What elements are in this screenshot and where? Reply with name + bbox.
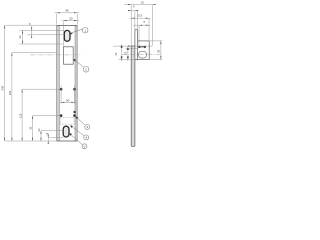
- side view tab: [135, 41, 149, 60]
- dim 38 right: [149, 41, 162, 60]
- side ext lines left: [113, 46, 153, 59]
- balloon 1 leader: [70, 29, 83, 33]
- bottom slot obround: [63, 126, 69, 137]
- svg-text:38: 38: [156, 49, 160, 53]
- dim ladder 33: [32, 116, 34, 141]
- plate outline (front view): [57, 25, 78, 141]
- plate flange band left (gray fill): [57, 25, 60, 141]
- balloon 2: [83, 67, 89, 73]
- rectangular cutout: [64, 47, 74, 64]
- top slot obround: [64, 30, 70, 41]
- svg-text:33: 33: [29, 126, 33, 130]
- centerline through cutout: [30, 54, 81, 56]
- svg-text:22: 22: [18, 35, 22, 39]
- upper hole right: [73, 88, 76, 91]
- svg-text:76: 76: [114, 52, 118, 56]
- bend line left: [58, 25, 60, 141]
- dim ladder 115: [21, 89, 23, 141]
- dim 22 (top left): [22, 30, 24, 44]
- balloon 3: [85, 125, 90, 130]
- balloon 1: [82, 27, 88, 33]
- svg-text:191: 191: [8, 90, 12, 95]
- dim 10.5: [130, 17, 151, 19]
- svg-text:22: 22: [37, 128, 41, 132]
- upper hole left: [60, 88, 63, 91]
- dim 40: [55, 13, 79, 25]
- dim 6 (top left small): [31, 26, 33, 38]
- bend line right: [74, 25, 76, 141]
- balloon 4 leader: [70, 125, 84, 135]
- dim 30: [59, 86, 76, 104]
- dim 5: [133, 24, 150, 26]
- slot obround in tab: [139, 51, 147, 58]
- dim ladder 191: [11, 53, 13, 142]
- svg-text:30: 30: [66, 98, 70, 102]
- svg-text:21: 21: [123, 51, 127, 55]
- small arrow at bar left: [127, 45, 131, 47]
- balloon 4: [84, 135, 89, 140]
- svg-text:15: 15: [141, 0, 145, 4]
- lower hole right: [73, 114, 76, 117]
- svg-text:115: 115: [19, 113, 23, 118]
- svg-text:245: 245: [1, 85, 5, 90]
- weld mark on right bend line: [74, 111, 76, 113]
- side centerline: [122, 54, 162, 56]
- dim ladder 22: [40, 131, 42, 141]
- bottom extension line: [5, 140, 57, 142]
- dim ladder 9: [47, 133, 49, 143]
- dim B (21): [127, 47, 129, 61]
- hidden dashed box: [60, 117, 74, 124]
- svg-text:40: 40: [65, 9, 69, 13]
- balloon 5: [82, 144, 87, 149]
- balloon 3 leader: [76, 117, 86, 126]
- svg-text:20: 20: [69, 16, 73, 20]
- side view bar: [131, 30, 137, 147]
- balloon 5 leader: [69, 133, 82, 145]
- balloon 2 leader: [73, 59, 83, 67]
- dim A (76): [121, 45, 123, 61]
- slot edge-on (bold bar): [138, 46, 140, 48]
- dim 4: [128, 10, 138, 12]
- dim 15 top: [124, 4, 156, 6]
- dim 20: [62, 21, 80, 47]
- left small dims ext lines: [5, 25, 65, 44]
- top right ext verticals: [131, 5, 152, 46]
- side bar interior fill: [131, 46, 135, 146]
- dim ladder 245: [4, 25, 6, 141]
- lower hole left: [60, 114, 63, 117]
